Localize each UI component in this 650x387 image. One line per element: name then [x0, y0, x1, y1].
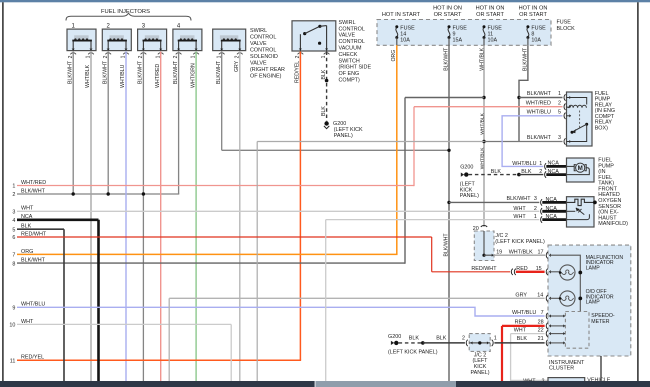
svg-text:OF ENG: OF ENG: [339, 71, 360, 77]
svg-text:RED/YEL: RED/YEL: [21, 355, 44, 361]
svg-text:OR START: OR START: [434, 12, 462, 18]
wire stub 5 BLK: [17, 228, 64, 230]
wire BLK dashed G200 to splice (lower): [399, 342, 423, 344]
wire solenoid BLK/WHT right to fuse9 net: [222, 149, 449, 151]
svg-text:22: 22: [538, 327, 544, 333]
svg-text:2: 2: [462, 336, 465, 342]
wire GRY net to cluster pin 14: [168, 298, 170, 381]
O/D OFF indicator lamp: [550, 291, 582, 306]
junction dot fuse8 / relay pin1 line: [517, 96, 520, 99]
svg-text:7: 7: [541, 310, 544, 316]
brace over injectors: [66, 13, 191, 20]
svg-text:19: 19: [496, 249, 502, 255]
svg-text:G200: G200: [388, 334, 401, 340]
relay internal coil and switch: [567, 98, 589, 142]
svg-text:BLK/WHT: BLK/WHT: [527, 91, 552, 97]
fuse block dashed box: [377, 20, 551, 46]
svg-text:FUEL INJECTORS: FUEL INJECTORS: [101, 9, 150, 15]
top window bar: [0, 0, 650, 2]
svg-text:10A: 10A: [531, 38, 541, 44]
wire solenoid BLK/WHT down: [221, 52, 223, 151]
fuel pump relay U1 box: [567, 92, 593, 146]
junction dot fuse9/solenoid: [447, 149, 450, 152]
svg-text:WHT/BLU: WHT/BLU: [512, 161, 536, 167]
svg-text:1: 1: [12, 184, 15, 190]
wire BLK/WHT from fuse 8 with jog: [519, 45, 528, 141]
fuel pump pin connectors: [545, 163, 546, 169]
wire solenoid GRY down to bottom: [239, 52, 241, 382]
relay pin 5 stub line: [567, 115, 570, 117]
inline connector RED/WHT to RED: [511, 269, 512, 275]
wire WHT/RED stub 1 to relay pin 2: [17, 185, 414, 187]
wire ORG from fuse 14 down: [396, 45, 398, 254]
wire injector4 WHT/GRN to bottom: [195, 52, 197, 382]
svg-text:WHT/BLK: WHT/BLK: [479, 147, 485, 169]
O2 pin connectors: [541, 199, 542, 205]
svg-text:9: 9: [12, 306, 15, 312]
splice dot lower BLK: [421, 341, 425, 345]
svg-text:3: 3: [534, 196, 537, 202]
wire BLK/WHT fuse9 to O2 pin 3: [449, 201, 539, 203]
svg-text:COMPT): COMPT): [339, 78, 360, 84]
svg-text:2: 2: [558, 100, 561, 106]
svg-text:BLK: BLK: [436, 336, 447, 342]
svg-text:WHT/BLU: WHT/BLU: [512, 310, 536, 316]
fuse 9 15A: [448, 25, 451, 45]
svg-text:NCA: NCA: [546, 206, 558, 212]
junction dot on BLK dashed wire: [325, 79, 329, 83]
svg-text:BLK/WHT: BLK/WHT: [138, 60, 144, 84]
relay pin connector: [564, 104, 565, 110]
ground G200 below check switch: [324, 121, 328, 125]
svg-text:RED: RED: [516, 266, 527, 272]
svg-text:MANIFOLD): MANIFOLD): [598, 221, 628, 227]
svg-text:5: 5: [12, 227, 15, 233]
svg-text:BLOCK: BLOCK: [557, 26, 576, 32]
svg-text:CONTROL: CONTROL: [250, 48, 276, 54]
junction dot bus/injector3: [142, 192, 145, 195]
svg-text:7: 7: [12, 253, 15, 259]
svg-text:VALVE: VALVE: [339, 33, 356, 39]
wire BLK to J/C2 lower pin 2: [423, 342, 465, 344]
svg-text:WHT/RED: WHT/RED: [21, 180, 46, 186]
svg-text:3: 3: [12, 210, 15, 216]
svg-text:8: 8: [531, 31, 534, 37]
internal line pin17 to lamps and speedometer: [550, 255, 581, 311]
svg-text:WHT/BLK: WHT/BLK: [509, 249, 533, 255]
svg-text:BLK: BLK: [409, 336, 420, 342]
svg-text:9: 9: [453, 31, 456, 37]
svg-text:8: 8: [12, 261, 15, 267]
bottom scrollbar track: [0, 381, 650, 387]
wire stub8 BLK/WHT net: up and right to WHT/BLK dot: [17, 262, 405, 264]
svg-text:15A: 15A: [453, 38, 463, 44]
svg-text:15: 15: [536, 266, 542, 272]
svg-text:3: 3: [558, 135, 561, 141]
svg-text:5: 5: [558, 110, 561, 116]
speedometer pin stubs: [551, 315, 564, 317]
O2 sensor internal heater and cell: [567, 199, 597, 219]
svg-text:ORG: ORG: [21, 249, 33, 255]
wire below cluster: [600, 356, 602, 381]
svg-text:2: 2: [12, 192, 15, 198]
svg-text:VALVE: VALVE: [250, 60, 267, 66]
svg-text:OR START: OR START: [519, 12, 547, 18]
svg-text:SWIRL: SWIRL: [250, 28, 267, 34]
wire WHT to vehicle speed sensor: [511, 379, 548, 381]
wire injector2 WHT/BLU to bottom: [125, 52, 127, 382]
wire injector1 WHT/BLK to bottom: [90, 52, 92, 382]
svg-text:WHT/BLK: WHT/BLK: [85, 64, 91, 88]
instrument cluster pin connector: [546, 340, 547, 346]
svg-text:BLK/WHT: BLK/WHT: [216, 60, 222, 84]
svg-text:CONTROL: CONTROL: [250, 35, 276, 41]
svg-text:1: 1: [494, 335, 497, 341]
svg-text:BLK: BLK: [517, 336, 528, 342]
svg-text:WHT/RED: WHT/RED: [526, 100, 551, 106]
svg-text:GRY: GRY: [515, 293, 527, 299]
svg-text:RED: RED: [515, 320, 526, 326]
junction dot WHT/BLK / relay pin3 net: [482, 140, 485, 143]
junction dot fuse9/O2 heater: [447, 201, 450, 204]
svg-text:10: 10: [9, 323, 15, 329]
svg-text:PANEL): PANEL): [470, 370, 489, 376]
wire stub 6 RED/WHT to cluster pin 15: [17, 236, 432, 238]
svg-text:METER: METER: [591, 319, 609, 325]
svg-text:VACUUM: VACUUM: [339, 46, 362, 52]
svg-text:11: 11: [10, 358, 16, 364]
wire RED vertical to pin 28: [501, 326, 503, 381]
wire RED thick to pin 15: [516, 271, 545, 273]
fuel pump M1 box: [567, 158, 595, 182]
wire WHT/BLU relay pin 5 to fuel pump pin 1: [502, 116, 562, 167]
wire O2 pin1 WHT down at x325.7: [325, 220, 327, 381]
svg-text:CONTROL: CONTROL: [339, 26, 365, 32]
svg-text:BLK/WHT: BLK/WHT: [173, 60, 179, 84]
svg-text:BLK/WHT: BLK/WHT: [21, 258, 46, 264]
malfunction indicator lamp: [550, 265, 582, 280]
speedometer dashed box: [565, 312, 589, 349]
svg-text:FUSE: FUSE: [400, 25, 415, 31]
junction connector J/C 2 (upper): [481, 225, 487, 226]
svg-text:FUSE: FUSE: [531, 25, 546, 31]
svg-text:WHT/BLK: WHT/BLK: [479, 112, 485, 134]
svg-text:10A: 10A: [488, 38, 498, 44]
wire ORG stub 7 horizontal: [17, 253, 398, 255]
svg-text:VALVE: VALVE: [250, 41, 267, 47]
wire injector3 BLK/WHT down through bus to bottom: [142, 52, 144, 382]
svg-text:BLK/WHT: BLK/WHT: [507, 196, 532, 202]
wire relay pin1 BLK/WHT: [519, 97, 563, 99]
O2 NCA stubs: [542, 201, 566, 204]
svg-text:BLK/WHT: BLK/WHT: [102, 60, 108, 84]
instrument cluster pin connector: [546, 323, 547, 329]
svg-text:LAMP: LAMP: [586, 300, 601, 306]
fuel injector 2: [102, 29, 131, 54]
instrument cluster pin connector: [546, 252, 547, 258]
svg-text:GRY: GRY: [234, 60, 240, 72]
swirl control valve control vacuum check switch: [292, 21, 336, 51]
svg-text:SWIRL: SWIRL: [339, 20, 356, 26]
svg-text:28: 28: [538, 320, 544, 326]
wire injector3 WHT/RED to bottom: [160, 52, 162, 382]
wire BLK splice to fuel pump pin 2: [519, 174, 543, 176]
fuse 11 10A: [483, 25, 486, 45]
svg-text:SOLENOID: SOLENOID: [250, 54, 278, 60]
svg-text:FUSE: FUSE: [557, 19, 572, 25]
svg-text:NCA: NCA: [548, 169, 560, 175]
svg-text:G200: G200: [460, 164, 473, 170]
svg-text:WHT: WHT: [514, 327, 527, 333]
wire BLK J/C2 to cluster pin 21: [494, 342, 544, 344]
svg-text:BLK/WHT: BLK/WHT: [21, 188, 46, 194]
svg-text:BLK/WHT: BLK/WHT: [527, 135, 552, 141]
instrument cluster pin connector: [546, 313, 547, 319]
svg-text:1: 1: [534, 214, 537, 220]
svg-text:(LEFT KICK PANEL): (LEFT KICK PANEL): [495, 239, 545, 245]
svg-text:BLK/WHT: BLK/WHT: [443, 233, 449, 257]
splice dot on BLK wire: [517, 173, 521, 177]
wire BLK/WHT from fuse 9 down to bottom: [448, 45, 450, 381]
wire stub 10 WHT down at x231: [17, 323, 231, 325]
svg-text:RED/WHT: RED/WHT: [471, 266, 497, 272]
wire BLK dashed from check switch to G200: [326, 52, 328, 122]
fuel injector 1: [67, 29, 96, 54]
svg-text:NCA: NCA: [548, 161, 560, 167]
fuse 14 10A: [395, 25, 398, 45]
svg-text:PANEL): PANEL): [460, 193, 479, 199]
svg-text:WHT/BLU: WHT/BLU: [527, 110, 551, 116]
svg-text:BLK: BLK: [321, 106, 327, 116]
instrument cluster dashed box: [548, 245, 631, 356]
svg-text:1: 1: [539, 161, 542, 167]
svg-text:21: 21: [538, 336, 544, 342]
svg-text:14: 14: [537, 293, 543, 299]
wire relay pin3 net: from x257 vertical to relay: [257, 141, 484, 143]
wire BLK/WHT bus (stub 2): [17, 193, 179, 195]
svg-text:(RIGHT SIDE: (RIGHT SIDE: [339, 65, 372, 71]
fuel injector 4: [173, 29, 202, 54]
svg-text:NCA: NCA: [546, 214, 558, 220]
right page border: [637, 2, 639, 381]
wire stub 3 WHT to O2 pin 2: [17, 210, 539, 212]
wire injector2 BLK/WHT down to bus: [107, 52, 109, 195]
wire BLK dashed G200 to splice: [469, 174, 519, 176]
svg-text:11: 11: [488, 31, 494, 37]
junction dot bus/injector1: [72, 192, 75, 195]
svg-text:BLK: BLK: [491, 169, 502, 175]
junction dot WHT/BLK / stub8 net: [482, 96, 485, 99]
svg-text:CHECK: CHECK: [339, 52, 358, 58]
check switch internal contacts: [298, 25, 330, 55]
fuel pump NCA stubs: [546, 165, 566, 168]
svg-text:OF ENGINE): OF ENGINE): [250, 73, 282, 79]
svg-text:FUSE: FUSE: [488, 25, 503, 31]
svg-text:4: 4: [12, 218, 15, 224]
wire stub 4 NCA: [17, 219, 99, 222]
wire injector1 BLK/WHT down to bus: [72, 52, 74, 195]
svg-text:(RIGHT REAR: (RIGHT REAR: [250, 67, 285, 73]
wire WHT vertical to pin 22: [510, 334, 512, 381]
instrument cluster pin connector: [546, 295, 547, 301]
svg-text:2: 2: [534, 206, 537, 212]
junction connector J/C 2 (lower): [469, 334, 490, 352]
fuel pump motor symbol: [567, 163, 590, 175]
svg-text:HOT IN START: HOT IN START: [382, 12, 421, 18]
svg-text:FUSE: FUSE: [453, 25, 468, 31]
svg-text:BLK/WHT: BLK/WHT: [67, 60, 73, 84]
svg-text:CONTROL: CONTROL: [339, 39, 365, 45]
relay pin connector: [564, 138, 565, 144]
junction dot bus/injector2: [107, 192, 110, 195]
svg-text:SWITCH: SWITCH: [339, 58, 360, 64]
left page border: [2, 2, 4, 381]
wire RED/YEL stub 11 horizontal: [17, 359, 301, 361]
instrument cluster pin connector: [546, 269, 547, 275]
fuse 8 10A: [526, 25, 529, 45]
bottom scrollbar thumb: [315, 381, 457, 387]
svg-text:HOT IN ON: HOT IN ON: [476, 5, 505, 11]
svg-text:CLUSTER: CLUSTER: [549, 366, 574, 372]
svg-text:HOT IN ON: HOT IN ON: [433, 5, 462, 11]
svg-text:G200: G200: [333, 121, 346, 127]
svg-text:PANEL): PANEL): [334, 133, 353, 139]
svg-text:NCA: NCA: [546, 197, 558, 203]
svg-text:14: 14: [400, 31, 406, 37]
svg-text:WHT: WHT: [513, 214, 526, 220]
wire stub 9 WHT/BLU to cluster pin 7: [17, 307, 545, 316]
svg-text:WHT/BLU: WHT/BLU: [120, 64, 126, 88]
wire RED/YEL down from check switch: [299, 52, 301, 361]
svg-text:HOT IN ON: HOT IN ON: [519, 5, 548, 11]
svg-text:17: 17: [538, 249, 544, 255]
svg-text:10A: 10A: [400, 38, 410, 44]
front heated oxygen sensor box: [567, 197, 595, 227]
svg-text:1: 1: [558, 91, 561, 97]
svg-text:6: 6: [12, 235, 15, 241]
svg-text:LAMP: LAMP: [586, 265, 601, 271]
svg-text:WHT: WHT: [513, 206, 526, 212]
svg-text:M: M: [578, 165, 583, 172]
svg-text:OR START: OR START: [476, 12, 504, 18]
fuel injector 3: [138, 29, 167, 54]
wire WHT/BLK from fuse 11 down to J/C2: [483, 45, 485, 227]
wire injector4 BLK/WHT down to bus corner: [178, 52, 180, 195]
relay pin connector: [564, 113, 565, 119]
svg-text:BOX): BOX): [595, 125, 608, 131]
instrument cluster pin connector: [546, 330, 547, 336]
swirl control valve control solenoid valve: [213, 29, 246, 54]
vehicle speed sensor box (clipped): [548, 378, 585, 387]
relay pin connector: [564, 94, 565, 100]
svg-text:(LEFT KICK PANEL): (LEFT KICK PANEL): [388, 349, 438, 355]
